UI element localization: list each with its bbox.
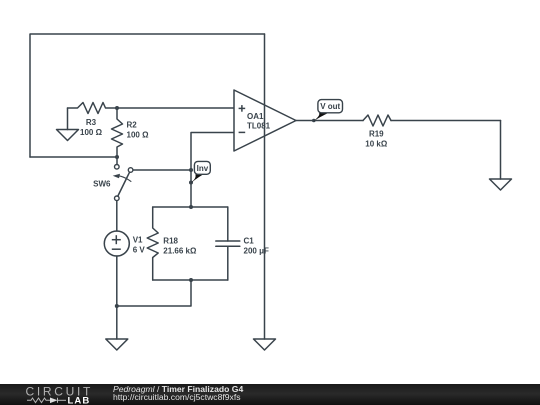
op-amp U1 minus input wire — [191, 133, 234, 208]
svg-text:21.66 kΩ: 21.66 kΩ — [163, 246, 197, 255]
capacitor C1 leads — [227, 207, 229, 241]
svg-text:10 kΩ: 10 kΩ — [365, 140, 388, 149]
flag V out — [314, 100, 343, 121]
wire output right corner down — [500, 121, 502, 180]
node RC bottom — [189, 278, 193, 282]
ground (R19) — [490, 179, 512, 190]
V1 + symbol — [112, 239, 121, 241]
junction dots — [115, 106, 316, 308]
ground (feedback, bottom right of RC area) — [254, 339, 276, 350]
resistor R3 — [68, 103, 118, 114]
capacitor C1 plates — [216, 240, 240, 242]
svg-text:100 Ω: 100 Ω — [80, 128, 103, 137]
wire output — [296, 120, 363, 122]
op-amp U1 triangle — [234, 90, 296, 151]
wire RC box bottom — [153, 279, 228, 281]
resistor R2 — [112, 108, 123, 157]
wire feedback vertical down to ground — [264, 34, 266, 339]
node switch wire / Inv line — [189, 168, 193, 172]
svg-text:OA1: OA1 — [247, 112, 264, 121]
wire switch top stub — [116, 157, 118, 164]
wire RC box top — [153, 206, 228, 208]
footer bar — [0, 384, 540, 405]
svg-text:V out: V out — [320, 102, 340, 111]
node V out anchor — [312, 119, 316, 123]
svg-text:R19: R19 — [369, 130, 384, 139]
wire left-bottom of loop — [30, 156, 117, 158]
node Inv anchor — [189, 181, 193, 185]
switch SW6 lever — [118, 172, 130, 196]
op-amp + symbol — [112, 105, 245, 249]
voltage source V1 — [104, 231, 129, 256]
wire switch bottom to V1 — [116, 201, 118, 231]
svg-text:Inv: Inv — [197, 164, 209, 173]
node R2 bottom / switch — [115, 155, 119, 159]
svg-text:C1: C1 — [244, 236, 255, 245]
wire nonInv: R3/R2 node to op-amp + input — [117, 107, 234, 109]
V1 - symbol — [112, 248, 121, 250]
switch SW6 arrow — [113, 174, 132, 182]
svg-text:100 Ω: 100 Ω — [127, 131, 150, 140]
svg-text:V1: V1 — [133, 236, 143, 245]
node R3/R2/+in — [115, 106, 119, 110]
svg-text:200 μF: 200 μF — [244, 246, 269, 255]
wire R19 to corner — [391, 120, 501, 122]
wire V1 bottom to ground node — [116, 256, 118, 339]
svg-text:R18: R18 — [163, 236, 178, 245]
flag Inv — [191, 161, 210, 183]
node RC top — [189, 205, 193, 209]
svg-text:TL081: TL081 — [247, 122, 271, 131]
wire R3 left lead down — [67, 108, 69, 130]
ground (V1 branch) — [106, 339, 128, 350]
svg-text:R3: R3 — [86, 118, 97, 127]
resistor R19 — [363, 115, 391, 126]
wire ground node to RC bottom — [117, 280, 191, 306]
wire top feedback loop — [30, 34, 265, 157]
op-amp - symbol — [239, 131, 246, 133]
svg-text:R2: R2 — [127, 121, 138, 130]
switch SW6 terminals — [115, 165, 133, 201]
ground (R3) — [57, 130, 79, 141]
wire switch common to Inv net — [133, 169, 191, 171]
svg-text:SW6: SW6 — [93, 180, 111, 189]
CircuitLab logo — [0, 384, 110, 405]
svg-text:6 V: 6 V — [133, 246, 146, 255]
svg-text:LAB: LAB — [68, 396, 91, 405]
logo squiggle: wire-resistor-diode — [27, 398, 66, 403]
resistor R18 — [147, 207, 158, 280]
node V1 ground junction — [115, 304, 119, 308]
